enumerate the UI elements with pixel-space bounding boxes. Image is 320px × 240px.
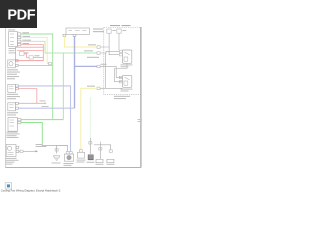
pin box on green down wire [89, 142, 92, 144]
wire C blue [18, 86, 70, 152]
box title [110, 25, 120, 26]
fuse box internal red wire 2 [33, 56, 43, 58]
relay 2 contact [125, 77, 130, 80]
wire A pin3 green to fuse box line [21, 41, 97, 53]
wire F to arrow terminal [23, 150, 36, 152]
attachment icon [5, 183, 11, 189]
label above yellow output [87, 86, 95, 87]
fuse 1 label [112, 30, 115, 31]
page left border [5, 28, 7, 168]
wire from fuse2 down [118, 33, 120, 50]
text under block B [7, 69, 20, 79]
right edge small text [138, 119, 143, 120]
pin box on bar2 right leg [109, 150, 112, 152]
motor block F [6, 145, 19, 157]
green output wire down [89, 97, 91, 138]
wire A pin4 red [21, 45, 43, 48]
connector block C [8, 84, 18, 92]
wire E pin2 green down to ground bar [21, 123, 57, 146]
relay 1 [122, 50, 131, 63]
bar2 comp texts [96, 164, 115, 165]
component under bar2 right leg [107, 159, 114, 162]
wire blue branch to box [75, 65, 98, 67]
label above yellow feed [88, 44, 96, 45]
a/c diode component [78, 152, 85, 158]
pin box on blue feed line [97, 65, 100, 68]
text under block D [7, 112, 18, 115]
box bottom text [114, 96, 130, 99]
radiator fan motor [64, 154, 73, 161]
ground symbol [53, 156, 59, 160]
terminal text [36, 144, 47, 147]
pin box on F wire [20, 150, 23, 152]
relay 2 coil [124, 81, 128, 85]
page right border [140, 27, 142, 168]
stub above bar2 [99, 142, 101, 145]
wire from fuse1 down [108, 33, 110, 47]
ground text [52, 163, 61, 164]
ground bar 2 [100, 145, 110, 160]
pin box on green feed line [97, 52, 100, 55]
internal wire relay2 output left [100, 87, 122, 89]
a/c diode text [77, 160, 86, 163]
wire B red to fuse box [18, 60, 43, 62]
terminal at yellow wire end [49, 62, 52, 65]
relay block B [8, 60, 18, 68]
fuse box internal red wire [17, 49, 43, 51]
internal vertical bus [105, 53, 107, 88]
label above green feed [84, 50, 93, 51]
fuse F2 [24, 54, 29, 58]
fuse box (red outline) [16, 47, 44, 60]
pin box on yellow down wire [79, 150, 82, 152]
PDF badge [0, 0, 37, 28]
text under block F [6, 158, 19, 165]
connector block A (heater fan switch) [9, 32, 21, 47]
connector component dark [88, 155, 94, 161]
wire A pin1 green [21, 34, 53, 119]
text under block C [7, 94, 20, 99]
wire C red loop to block D and terminal [18, 89, 37, 104]
terminal arrow on red wire [45, 102, 47, 104]
motor text [64, 163, 74, 166]
internal wire yellow feed to relay1 [100, 47, 119, 55]
wire F to pin [19, 150, 20, 152]
text right of block G [93, 28, 104, 32]
fuse box text labels [9, 48, 40, 56]
arrow terminal [36, 150, 38, 152]
pin boxes on motor top [66, 152, 69, 154]
ground bar 1 [57, 146, 68, 154]
red terminal label [40, 100, 46, 101]
connector block D [8, 102, 18, 111]
relay 2 [122, 75, 131, 87]
ignition switch block G [63, 28, 90, 36]
pin box on yellow feed line [97, 46, 100, 49]
connector block E (fan switch) [8, 118, 21, 132]
internal wire blue feed to relay2 [100, 66, 122, 77]
bar2 to green connector link [94, 144, 100, 146]
relay 1 label [121, 64, 133, 65]
wire A pin2 yellow [21, 37, 49, 63]
fuse F1 [20, 52, 25, 56]
pin box on relay2 output [97, 87, 100, 90]
wire E pin1 green [21, 119, 63, 121]
relay 2 label [121, 89, 133, 90]
svg-text:Cooling Fan Wiring Diagram, Ex: Cooling Fan Wiring Diagram, Except Hatch… [1, 189, 61, 193]
relay 1 contact [125, 52, 130, 55]
fuse 1 in box [107, 29, 111, 33]
svg-text:PDF: PDF [7, 8, 35, 24]
label above blue feed line [101, 64, 107, 65]
wire G yellow to box [64, 36, 97, 47]
relay 2 pin boxes [119, 76, 122, 78]
component under bar2 left leg [96, 159, 103, 162]
wire labels near block A [23, 32, 32, 44]
green vertical G2 [62, 53, 64, 120]
pin box on bar2 left leg [99, 148, 102, 150]
wire D blue to junction [18, 107, 74, 109]
internal link relay1 to relay2 [115, 63, 128, 81]
label line 2 under green feed [87, 57, 99, 58]
wire B green [18, 64, 53, 66]
under-hood fuse/relay box (dashed) [104, 28, 141, 95]
text under dark connector [87, 162, 95, 163]
wire G blue main vertical [74, 36, 76, 108]
fuse 2 in box [117, 29, 121, 33]
relay 1 coil [124, 57, 128, 61]
yellow output wire down [81, 88, 97, 149]
label above block A [8, 29, 15, 30]
relay 1 pin boxes [119, 50, 122, 52]
fuse 2 label [122, 30, 126, 31]
text under block E [7, 132, 20, 138]
page bottom border [6, 167, 142, 169]
internal wire green feed to relay1 [100, 51, 119, 53]
pin box on ground leg [55, 149, 58, 151]
